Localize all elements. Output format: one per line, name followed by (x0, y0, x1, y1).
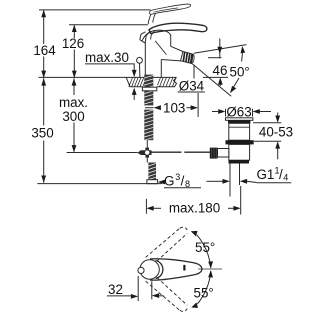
spout axis diagonal leader (192, 64, 231, 96)
G1 1/4 leader arrows to tailpipe (207, 180, 223, 182)
46 lower up arrow (218, 77, 223, 84)
G3/8 threaded end (hatched) (148, 163, 156, 180)
side port (218, 149, 229, 158)
body internal diagonal (155, 41, 166, 55)
hose end reference line (max.300) (67, 152, 138, 154)
G3/8 leader arrow to thread (164, 181, 165, 183)
deck slab right of shank (157, 77, 177, 86)
faucet lever open position (thin blade) (150, 4, 191, 14)
svg-text:3: 3 (175, 172, 180, 182)
deck top surface line (39, 76, 177, 78)
svg-text:55°: 55° (195, 240, 215, 255)
extension line top of lever (164 reference) (39, 9, 150, 11)
spout bottom edge (161, 60, 180, 61)
deck slab left of shank (126, 77, 142, 86)
deck hatching (129, 77, 176, 86)
label G3/8 underlined (164, 172, 190, 189)
55deg arc upper (197, 235, 211, 268)
extension line 103 right (197, 93, 199, 117)
50 degree up arrow on slant line (241, 46, 246, 53)
top view: lever front arc (156, 261, 163, 279)
top view: body cap circle (140, 260, 159, 279)
dimension 40-53 (253, 113, 281, 160)
svg-text:/: / (181, 174, 185, 189)
deck level extension right (203, 76, 228, 78)
lever neck to dome (145, 31, 150, 41)
pop-up linkage rod horizontal (152, 151, 182, 153)
dimension 103 (145, 105, 198, 110)
body left edge (144, 41, 146, 77)
aerator knurled band (181, 52, 194, 64)
supply pipe below shank (146, 140, 148, 150)
body lower right edge (160, 60, 162, 78)
mounting nut under deck (142, 87, 156, 91)
svg-text:46: 46 (213, 63, 228, 78)
bottom reference base line (350) (37, 183, 162, 185)
lever blade inner line (154, 8, 179, 12)
pop-up waste flange (226, 118, 253, 121)
dimension Ø63 (212, 109, 271, 117)
extension line aerator face (193, 65, 195, 79)
threaded shank through deck (hatched) (144, 75, 153, 141)
50deg lower arrow (232, 78, 240, 91)
46 dimension slant reference line (194, 45, 247, 54)
supply pipe to G3/8 (146, 158, 148, 163)
dimension max.180 (146, 186, 240, 215)
pop-up bottom seal (229, 160, 250, 163)
top view: lever centerline (198, 268, 222, 270)
lever back heel (140, 32, 146, 43)
svg-text:50°: 50° (230, 65, 250, 80)
pop-up rod stem (139, 63, 141, 77)
side knob (ribbed) (210, 148, 218, 159)
dimension 350 vertical (41, 78, 46, 183)
svg-text:4: 4 (283, 173, 288, 183)
body right edge upper (170, 35, 172, 47)
dashed lever rotated down (146, 278, 188, 312)
svg-text:300: 300 (62, 109, 84, 124)
max.30 arrow to deck top (132, 70, 137, 77)
dimension 164 vertical line (41, 10, 46, 78)
collar nut at pipe end (147, 180, 158, 184)
top view: solid lever outline (150, 259, 202, 280)
dimension 32 (107, 276, 164, 301)
top view: pop-up knob circle (138, 267, 144, 273)
pop-up large seal ring (226, 140, 254, 144)
label G1 1/4 underlined (257, 166, 289, 183)
outlet bottom short line (208, 57, 222, 59)
pop-up rod knob above deck (137, 57, 143, 63)
spout top edge (171, 46, 183, 51)
svg-text:G: G (164, 174, 174, 189)
pop-up lower body (229, 144, 250, 160)
svg-text:350: 350 (31, 126, 53, 141)
tailpipe (229, 164, 231, 197)
55deg arc lower (197, 271, 211, 304)
svg-text:103: 103 (163, 100, 185, 115)
dimension max.300 vertical (72, 78, 77, 152)
pop-up upper body (229, 123, 250, 140)
top view: logo tick (183, 265, 185, 271)
extension line lever lower (126 reference) (69, 24, 148, 26)
max.30 arrow below deck (132, 88, 137, 95)
svg-text:Ø63: Ø63 (226, 104, 251, 119)
dashed lever rotated up (146, 227, 188, 261)
svg-text:32: 32 (108, 282, 123, 297)
pop-up seal band upper (228, 120, 250, 123)
46 dimension vertical with down arrow (217, 39, 222, 59)
cross fitting (137, 148, 151, 158)
svg-text:G1: G1 (257, 167, 275, 182)
svg-text:126: 126 (62, 36, 84, 51)
faucet lever closed (bold) (149, 23, 207, 33)
svg-text:55°: 55° (194, 285, 214, 300)
svg-text:max.180: max.180 (169, 200, 220, 215)
lever open pivot lines (148, 14, 151, 24)
svg-text:40-53: 40-53 (259, 125, 293, 140)
svg-text:Ø34: Ø34 (179, 79, 205, 94)
svg-text:164: 164 (33, 43, 56, 58)
body dome top (142, 30, 171, 41)
svg-text:max.: max. (59, 95, 88, 110)
svg-text:max.30: max.30 (85, 50, 129, 65)
dimension 126 vertical line (72, 25, 77, 78)
